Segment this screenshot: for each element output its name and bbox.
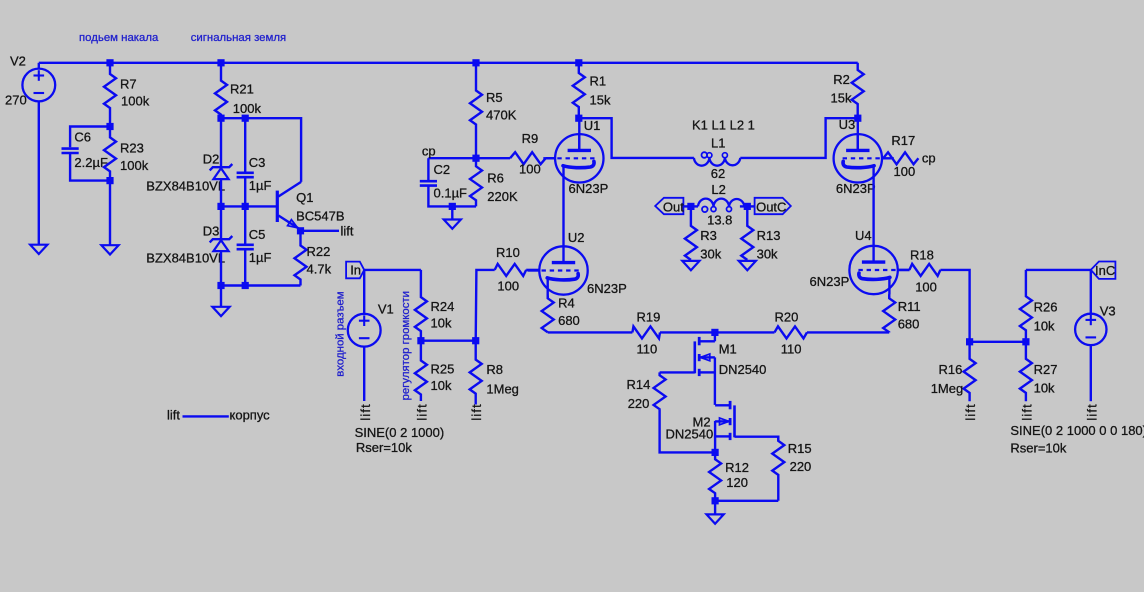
wire R10 to U2 grid — [526, 269, 539, 271]
svg-text:1Meg: 1Meg — [931, 381, 964, 396]
ground R13 — [739, 261, 756, 270]
svg-text:L2: L2 — [711, 182, 725, 197]
resistor R24 — [415, 270, 427, 341]
svg-text:BC547B: BC547B — [296, 209, 344, 224]
svg-text:R23: R23 — [120, 141, 144, 156]
voltage source V2 — [22, 69, 55, 102]
transistor Q1 — [276, 191, 279, 222]
svg-text:6N23P: 6N23P — [836, 181, 876, 196]
svg-text:1µF: 1µF — [249, 178, 272, 193]
svg-text:15k: 15k — [831, 91, 852, 106]
svg-text:R16: R16 — [939, 362, 963, 377]
svg-text:lift: lift — [414, 403, 429, 420]
junction D3 bottom — [217, 282, 224, 289]
svg-text:U1: U1 — [584, 118, 601, 133]
svg-text:DN2540: DN2540 — [719, 362, 767, 377]
svg-text:U2: U2 — [568, 230, 585, 245]
svg-text:0.1µF: 0.1µF — [434, 186, 468, 201]
capacitor C3 — [237, 172, 254, 175]
wire M1 source riser — [714, 357, 716, 405]
svg-text:R24: R24 — [431, 299, 455, 314]
resistor R7 — [104, 63, 116, 127]
svg-text:100: 100 — [894, 164, 916, 179]
wire emitter to lift label — [301, 230, 340, 232]
resistor R2 — [852, 63, 864, 118]
wire top rail — [39, 62, 858, 64]
svg-text:R27: R27 — [1034, 362, 1058, 377]
resistor R15 — [772, 438, 784, 501]
svg-text:10k: 10k — [1034, 319, 1055, 334]
svg-text:13.8: 13.8 — [707, 213, 732, 228]
junction Q1 emitter — [297, 227, 304, 234]
svg-text:1µF: 1µF — [249, 250, 272, 265]
junction M1 drain node — [711, 329, 718, 336]
svg-text:100: 100 — [915, 280, 937, 295]
svg-text:U4: U4 — [855, 228, 872, 243]
svg-text:Q1: Q1 — [296, 190, 313, 205]
wire Q1 collector riser — [221, 118, 301, 182]
wire U1 plate node to L1 — [579, 118, 694, 158]
wire node row to Q1 base — [221, 205, 277, 207]
svg-text:30k: 30k — [700, 246, 721, 261]
svg-text:BZX84B10VL: BZX84B10VL — [146, 179, 225, 194]
svg-text:M1: M1 — [719, 342, 737, 357]
svg-text:D3: D3 — [203, 223, 220, 238]
svg-text:K1 L1 L2 1: K1 L1 L2 1 — [692, 118, 755, 133]
zener diode D3 — [210, 236, 233, 242]
junction R26/R27 node — [1022, 338, 1029, 345]
svg-text:R1: R1 — [590, 74, 607, 89]
wire U3 cathode to U4 plate — [872, 183, 874, 246]
wire M1 drain lead — [714, 332, 716, 341]
svg-text:R7: R7 — [120, 77, 137, 92]
resistor R26 — [1020, 270, 1032, 342]
resistor R6 — [470, 158, 482, 206]
wire M2 gate lead — [735, 437, 779, 442]
svg-text:220: 220 — [790, 459, 812, 474]
wire Out to L2 — [683, 205, 691, 207]
resistor R11 — [883, 296, 895, 333]
svg-text:R13: R13 — [757, 228, 781, 243]
triode U1 — [555, 134, 603, 182]
junction R24/R25 node — [417, 337, 424, 344]
junction C2 ground node — [449, 203, 456, 210]
svg-text:DN2540: DN2540 — [666, 427, 714, 442]
junction R2 bottom / U3 plate — [854, 115, 861, 122]
wire volume node — [421, 340, 476, 342]
triode U4 (mirrored) — [849, 246, 897, 294]
svg-text:R11: R11 — [898, 299, 921, 314]
svg-text:C3: C3 — [249, 155, 266, 170]
transistor M1 — [693, 341, 696, 373]
port flag Out — [655, 198, 683, 214]
resistor R27 — [1020, 342, 1032, 401]
svg-text:Out: Out — [663, 199, 684, 214]
capacitor C2 — [420, 180, 437, 183]
svg-text:lift: lift — [963, 403, 978, 420]
svg-text:R26: R26 — [1034, 300, 1058, 315]
wire U4 grid to R18 — [898, 269, 910, 271]
svg-text:D2: D2 — [203, 151, 220, 166]
resistor R22 — [295, 231, 307, 286]
resistor R23 — [104, 127, 116, 181]
wire R18 to R16 riser — [940, 270, 969, 342]
svg-text:Rser=10k: Rser=10k — [1010, 441, 1066, 456]
wire M1 drain node to R20 — [715, 331, 775, 333]
wire R20 to R11 — [807, 331, 889, 333]
svg-text:входной разъем: входной разъем — [334, 291, 346, 376]
wire D3 top lead — [220, 206, 222, 239]
svg-text:R21: R21 — [230, 82, 254, 97]
inductor L2 — [698, 199, 744, 207]
resistor R14 — [654, 372, 666, 410]
resistor R20 — [775, 326, 808, 338]
wire cp node to R9 — [476, 157, 510, 159]
svg-text:R4: R4 — [558, 296, 575, 311]
wire C2 top lead — [427, 158, 429, 180]
svg-text:15k: 15k — [590, 92, 611, 107]
svg-text:SINE(0 2 1000): SINE(0 2 1000) — [355, 425, 445, 440]
wire C3 top lead — [244, 118, 246, 172]
svg-text:подьем накала: подьем накала — [79, 32, 159, 44]
triode U2 — [539, 246, 587, 294]
capacitor C5 — [237, 244, 254, 247]
svg-text:470K: 470K — [486, 107, 517, 122]
voltage source V3 — [1075, 314, 1106, 345]
svg-text:SINE(0 2 1000 0 0 180): SINE(0 2 1000 0 0 180) — [1010, 423, 1144, 438]
wire R10 riser — [476, 270, 495, 341]
wire bottom row to R22 — [221, 284, 301, 286]
wire R19 to M1 drain — [660, 331, 715, 333]
wire U4 cathode to R11 — [888, 294, 890, 298]
wire R26 to InC — [1026, 269, 1091, 271]
svg-text:30k: 30k — [757, 246, 778, 261]
svg-text:120: 120 — [726, 475, 748, 490]
port flag In — [346, 262, 364, 279]
junction R1 bottom / U1 plate — [575, 115, 582, 122]
svg-text:In: In — [350, 263, 361, 278]
junction R1 top — [575, 59, 582, 66]
svg-text:V2: V2 — [10, 53, 26, 68]
wire lift to корпус — [183, 415, 229, 417]
svg-text:L1: L1 — [711, 136, 725, 151]
svg-text:корпус: корпус — [230, 408, 271, 423]
wire U2 cathode to R4 — [547, 295, 549, 299]
junction R12 bottom node — [712, 497, 719, 504]
svg-text:R25: R25 — [431, 362, 455, 377]
wire D3 to ground — [220, 286, 222, 307]
wire M2 source riser — [714, 421, 716, 453]
wire R12 to ground — [714, 501, 716, 515]
svg-text:4.7k: 4.7k — [307, 262, 332, 277]
svg-text:lift: lift — [341, 224, 354, 239]
wire C6 top — [70, 127, 110, 148]
wire L1 to U3 plate node — [740, 118, 858, 158]
ground R3 — [682, 261, 699, 270]
wire C5 bottom lead — [244, 250, 246, 286]
svg-text:10k: 10k — [1034, 381, 1055, 396]
wire M1 gate lead — [660, 371, 695, 373]
svg-text:BZX84B10VL: BZX84B10VL — [146, 251, 225, 266]
svg-text:R22: R22 — [307, 244, 331, 259]
junction R8 top node — [472, 337, 479, 344]
svg-text:lift: lift — [1019, 403, 1034, 420]
svg-text:680: 680 — [558, 313, 580, 328]
resistor R18 — [909, 264, 940, 276]
svg-text:R12: R12 — [725, 460, 749, 475]
wire U1 plate lead — [578, 118, 580, 150]
junction L2 right / R13 — [744, 203, 751, 210]
port flag InC — [1091, 262, 1116, 279]
wire U3 plate lead — [857, 118, 859, 150]
wire L2 left lead — [691, 205, 698, 207]
wire D2 top lead — [220, 118, 222, 167]
svg-text:U3: U3 — [839, 117, 856, 132]
wire U1 cathode to U2 plate — [562, 183, 564, 247]
svg-text:C2: C2 — [434, 162, 451, 177]
port flag OutC — [755, 198, 791, 214]
resistor R13 — [741, 206, 753, 260]
junction M2 source node — [712, 449, 719, 456]
resistor R1 — [573, 63, 585, 118]
svg-text:R6: R6 — [487, 171, 504, 186]
wire In to R24 — [364, 269, 421, 271]
junction D2/D3 node — [217, 203, 224, 210]
junction C3/C5 node — [242, 203, 249, 210]
junction R16 node — [966, 338, 973, 345]
svg-text:R3: R3 — [700, 228, 717, 243]
svg-text:R18: R18 — [910, 248, 934, 263]
svg-text:R9: R9 — [522, 131, 539, 146]
ground R23 — [101, 245, 118, 254]
inductor L1 — [694, 158, 740, 166]
resistor R19 — [632, 326, 660, 338]
resistor R4 — [542, 296, 554, 333]
junction C5 bottom — [242, 282, 249, 289]
ground V2 — [30, 245, 47, 254]
svg-text:lift: lift — [1084, 403, 1099, 420]
junction C6/R23 bottom — [106, 177, 113, 184]
svg-text:cp: cp — [422, 143, 436, 158]
svg-text:R8: R8 — [486, 362, 503, 377]
svg-text:V1: V1 — [378, 302, 394, 317]
zener diode D2 — [210, 164, 233, 170]
svg-text:220K: 220K — [487, 189, 518, 204]
svg-text:R20: R20 — [775, 309, 799, 324]
svg-text:1Meg: 1Meg — [486, 382, 519, 397]
wire C5 top lead — [244, 206, 246, 244]
junction L2 left / R3 — [687, 203, 694, 210]
svg-text:Rser=10k: Rser=10k — [356, 440, 412, 455]
wire R4 to R19 — [548, 331, 633, 333]
resistor R9 — [510, 152, 546, 164]
junction R7 bottom — [106, 123, 113, 130]
svg-text:сигнальная земля: сигнальная земля — [191, 32, 286, 44]
ground C2 node — [444, 220, 461, 229]
svg-text:InC: InC — [1095, 263, 1115, 278]
resistor R16 — [964, 342, 976, 401]
wire R9 to U1 grid — [546, 157, 555, 159]
svg-text:110: 110 — [781, 342, 802, 357]
svg-text:6N23P: 6N23P — [587, 281, 627, 296]
triode U3 (mirrored) — [834, 134, 882, 182]
junction R5 top — [472, 59, 479, 66]
junction R7 top — [106, 59, 113, 66]
resistor R25 — [415, 341, 427, 401]
resistor R12 — [709, 452, 721, 500]
svg-text:lift: lift — [167, 408, 180, 423]
wire R15 bottom to R12 node — [715, 500, 778, 502]
svg-text:100k: 100k — [233, 101, 262, 116]
svg-text:V3: V3 — [1100, 303, 1116, 318]
ground R12 — [707, 514, 724, 523]
svg-text:6N23P: 6N23P — [810, 274, 850, 289]
junction R21 bottom — [217, 115, 224, 122]
wire R14 bottom to M2 source node — [660, 410, 716, 453]
svg-text:270: 270 — [5, 93, 27, 108]
svg-text:R5: R5 — [486, 90, 503, 105]
resistor R10 — [495, 264, 527, 276]
wire D3 anode lead — [220, 251, 222, 285]
wire C2 bottom lead — [428, 186, 476, 206]
svg-text:110: 110 — [637, 342, 658, 357]
svg-text:OutC: OutC — [756, 199, 786, 214]
capacitor C6 — [62, 147, 79, 150]
svg-text:10k: 10k — [431, 316, 452, 331]
svg-text:10k: 10k — [431, 378, 452, 393]
wire L2 to OutC — [747, 205, 754, 207]
svg-text:6N23P: 6N23P — [569, 181, 609, 196]
svg-text:220: 220 — [628, 396, 650, 411]
resistor R5 — [470, 63, 482, 158]
junction R5 bottom (cp node) — [472, 155, 479, 162]
resistor R17 — [883, 152, 918, 164]
wire R23 to ground — [109, 181, 111, 246]
wire R16 node to R26 node — [970, 341, 1026, 343]
svg-text:R17: R17 — [891, 133, 915, 148]
svg-text:R2: R2 — [833, 72, 850, 87]
voltage source V1 — [348, 314, 381, 347]
svg-text:680: 680 — [898, 317, 920, 332]
svg-text:C6: C6 — [74, 130, 91, 145]
svg-text:62: 62 — [711, 166, 725, 181]
junction C3 top — [242, 115, 249, 122]
svg-text:100k: 100k — [121, 94, 150, 109]
svg-text:C5: C5 — [249, 227, 266, 242]
svg-text:cp: cp — [922, 151, 936, 166]
svg-text:R14: R14 — [627, 377, 651, 392]
svg-text:R10: R10 — [496, 245, 520, 260]
wire cp node left — [428, 157, 476, 159]
svg-text:R15: R15 — [788, 441, 812, 456]
wire ground lead C2 — [451, 206, 453, 219]
svg-text:lift: lift — [469, 403, 484, 420]
svg-text:регулятор громкости: регулятор громкости — [400, 291, 412, 400]
svg-text:100: 100 — [497, 278, 519, 293]
svg-text:lift: lift — [358, 403, 373, 420]
wire L2 right lead — [740, 205, 747, 207]
resistor R8 — [470, 341, 482, 405]
resistor R21 — [215, 63, 227, 118]
svg-text:100k: 100k — [120, 158, 149, 173]
transistor M2 — [733, 405, 736, 437]
wire C3 bottom lead — [244, 178, 246, 207]
wire D2 anode lead — [220, 179, 222, 206]
wire C6 bottom — [70, 154, 110, 181]
ground D3/C5 node — [212, 307, 229, 316]
svg-text:R19: R19 — [637, 309, 661, 324]
resistor R3 — [685, 206, 697, 260]
svg-text:100: 100 — [519, 161, 541, 176]
junction R21 top — [217, 59, 224, 66]
